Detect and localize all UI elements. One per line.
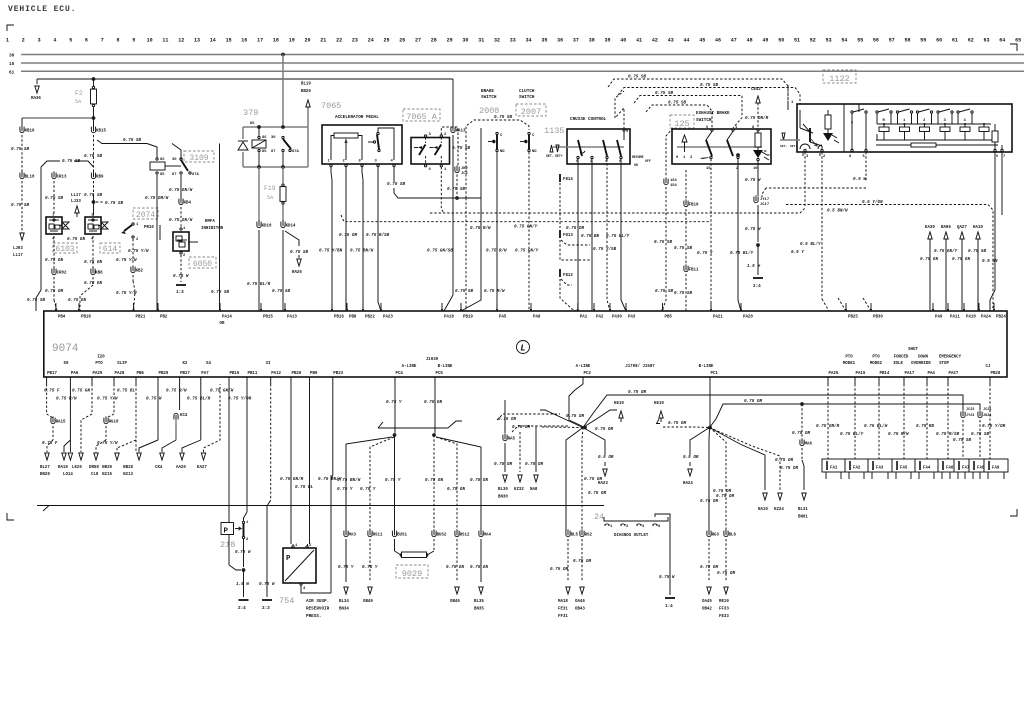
svg-text:2: 2 [626, 525, 629, 529]
svg-text:BL6: BL6 [729, 534, 737, 538]
svg-text:PA23: PA23 [383, 316, 393, 320]
svg-text:JY17: JY17 [760, 198, 770, 202]
svg-text:85: 85 [262, 150, 267, 154]
svg-text:22: 22 [336, 38, 342, 44]
svg-text:LJ03: LJ03 [13, 247, 23, 251]
svg-text:PA15: PA15 [856, 372, 866, 376]
svg-text:4: 4 [52, 238, 55, 242]
svg-text:56: 56 [873, 38, 879, 44]
svg-text:3109: 3109 [189, 154, 208, 163]
arrow NA10 [763, 493, 767, 500]
ground 1:3 [176, 284, 186, 286]
wire KA13 drop [452, 79, 454, 127]
svg-text:0.75 GN/W: 0.75 GN/W [210, 389, 234, 394]
svg-text:10: 10 [147, 38, 153, 44]
sensor 754 box [283, 548, 316, 583]
svg-text:44: 44 [683, 38, 689, 44]
svg-text:0.75 GN: 0.75 GN [447, 487, 465, 492]
svg-text:0.75 OR: 0.75 OR [780, 466, 798, 471]
svg-text:RA24: RA24 [683, 482, 693, 486]
wire PB27 column KC4 [179, 384, 181, 410]
label 125 [670, 115, 694, 128]
svg-text:KD14: KD14 [286, 225, 296, 229]
svg-text:1: 1 [246, 521, 249, 525]
svg-text:0.75 GN: 0.75 GN [470, 478, 488, 483]
wire F814 dashed down [559, 183, 561, 228]
svg-text:60: 60 [936, 38, 942, 44]
svg-text:2: 2 [923, 119, 926, 123]
svg-text:FF33: FF33 [719, 608, 729, 612]
svg-text:PRESS.: PRESS. [306, 614, 321, 619]
cruise SET arrows left [550, 145, 553, 152]
svg-text:NB28: NB28 [123, 466, 133, 470]
svg-text:0.75 Y/BN: 0.75 Y/BN [319, 249, 343, 254]
svg-text:0.5 OR: 0.5 OR [598, 455, 614, 460]
svg-text:PB6: PB6 [137, 372, 145, 376]
wire horizontal feed y79 [37, 78, 453, 80]
ruler column numbers 1-65 [6, 38, 1021, 44]
svg-text:0.75 OR: 0.75 OR [668, 421, 686, 426]
svg-text:CJ: CJ [986, 365, 991, 369]
wire branch to CR13 [41, 161, 60, 167]
connector RG3 [707, 531, 711, 537]
svg-text:AA20: AA20 [176, 466, 186, 470]
svg-text:1:3: 1:3 [176, 290, 184, 295]
wire RG3 down [708, 539, 710, 582]
svg-text:QA27: QA27 [957, 226, 967, 230]
svg-text:0.75 F: 0.75 F [42, 441, 58, 446]
svg-text:9029: 9029 [402, 569, 422, 579]
svg-text:F: F [851, 122, 854, 126]
svg-text:29: 29 [447, 38, 453, 44]
svg-text:KE10: KE10 [614, 402, 624, 406]
wire PA4 column [926, 384, 928, 459]
wire PA29 column [91, 384, 93, 414]
svg-text:RS11: RS11 [373, 534, 383, 538]
svg-text:F2: F2 [75, 90, 83, 97]
svg-text:7: 7 [101, 38, 104, 44]
svg-text:0.75 GN: 0.75 GN [920, 257, 938, 262]
wire stub PB30 [863, 298, 871, 311]
svg-text:JY23: JY23 [966, 414, 974, 418]
svg-text:51: 51 [794, 38, 800, 44]
svg-text:PA28: PA28 [115, 372, 125, 376]
exhaust internal rail [677, 146, 762, 148]
svg-text:1: 1 [136, 223, 139, 227]
label 7065 A [403, 109, 440, 121]
wire 0.75 SB web line3 [634, 96, 742, 129]
svg-text:FE31: FE31 [558, 608, 568, 612]
svg-text:FA9: FA9 [992, 467, 1000, 471]
wire 7065 pin4 down [393, 167, 395, 182]
svg-text:PA3: PA3 [628, 316, 636, 320]
svg-text:LE26: LE26 [72, 466, 82, 470]
svg-text:0.75 OR: 0.75 OR [525, 462, 543, 467]
connector KC4 [174, 413, 178, 419]
svg-text:STOP: STOP [939, 362, 949, 366]
wire stub PB25 [838, 298, 846, 311]
wire KD14 to ECU PA13 [282, 230, 284, 311]
svg-text:0.75 W: 0.75 W [659, 575, 675, 580]
pressure switch 218 contact [242, 521, 244, 523]
7065A switch 1 [424, 135, 426, 137]
svg-text:FE33: FE33 [719, 615, 729, 619]
KE10 arrow 2 [659, 411, 663, 418]
svg-text:PA14: PA14 [222, 316, 232, 320]
1122 left cell pins [800, 144, 805, 149]
1122 right pins [994, 149, 996, 151]
connector F812 [559, 269, 561, 277]
label 2007 [516, 104, 546, 116]
connector JC23 JY23 [961, 412, 965, 418]
svg-text:0.75 Y/W: 0.75 Y/W [97, 441, 118, 446]
svg-text:PB5: PB5 [665, 316, 673, 320]
wire 7065A jumper to JK2 [441, 127, 458, 165]
wire JC23 down [962, 420, 964, 459]
svg-text:0.75 GN: 0.75 GN [67, 237, 85, 242]
svg-text:BL27: BL27 [40, 466, 50, 470]
wire 1122 pin6 down [990, 152, 995, 311]
wire PA27 column [947, 384, 949, 459]
svg-text:F19: F19 [264, 185, 276, 192]
svg-text:PB4: PB4 [58, 316, 66, 320]
svg-text:PA24: PA24 [981, 316, 991, 320]
switch pack box 7065A [411, 138, 450, 165]
junction C PC4 [393, 433, 397, 437]
pressure switch 218 box [221, 523, 234, 535]
svg-text:0.75 Y/OR: 0.75 Y/OR [228, 397, 252, 402]
svg-text:PA21: PA21 [713, 316, 723, 320]
svg-text:0.75 OR: 0.75 OR [744, 399, 762, 404]
svg-text:0.75 Y/W: 0.75 Y/W [116, 291, 137, 296]
svg-text:0.75 SB: 0.75 SB [968, 249, 986, 254]
svg-text:3I: 3I [266, 362, 271, 366]
svg-text:39: 39 [604, 38, 610, 44]
connector RS12 [455, 531, 459, 537]
svg-text:0.75 GN: 0.75 GN [470, 565, 488, 570]
svg-text:EA30: EA30 [925, 226, 935, 230]
svg-text:21: 21 [320, 38, 326, 44]
svg-text:0.75 Y: 0.75 Y [338, 565, 354, 570]
connector BL6 [724, 531, 728, 537]
wire 0.75 OR to RA5 [497, 414, 560, 420]
svg-text:JK2: JK2 [461, 167, 469, 171]
1122 divider [843, 104, 845, 152]
svg-text:DIAGNOS OUTLET: DIAGNOS OUTLET [614, 534, 649, 538]
svg-text:F812: F812 [563, 274, 573, 278]
arrow BL31 [802, 493, 806, 500]
wire 3109 85 down [156, 175, 158, 311]
wire 7065A pin1 to BN/W line [441, 167, 444, 213]
svg-text:0.75 GN/SB: 0.75 GN/SB [427, 249, 453, 254]
wire 1122 pin8-5 down [865, 152, 867, 181]
svg-text:0.75 GN: 0.75 GN [84, 281, 102, 286]
wire F813 stub [561, 240, 590, 245]
svg-text:BL10: BL10 [25, 176, 35, 180]
1122 resistor rail top [877, 123, 991, 125]
svg-text:LL17: LL17 [13, 254, 23, 258]
connector MA4 [479, 531, 483, 537]
svg-text:27: 27 [415, 38, 421, 44]
svg-text:RA36: RA36 [31, 97, 41, 101]
svg-text:B-LINE: B-LINE [438, 365, 453, 369]
svg-text:1122: 1122 [829, 74, 849, 84]
wire 7065 pin1 to ECU [331, 167, 332, 311]
node A junction [583, 426, 587, 430]
svg-text:0.75 SB: 0.75 SB [655, 91, 673, 96]
wire x481 to PB19 [461, 198, 481, 311]
junction 7065A output [455, 196, 459, 200]
svg-text:BN01: BN01 [798, 516, 808, 520]
wire PC4 down to BUS1 [394, 435, 396, 531]
svg-text:RA15: RA15 [56, 421, 66, 425]
svg-text:CRUISE CONTROL: CRUISE CONTROL [570, 117, 607, 122]
svg-text:0.75 GN: 0.75 GN [84, 260, 102, 265]
svg-text:BL19: BL19 [301, 83, 311, 87]
svg-text:PB8: PB8 [349, 316, 357, 320]
svg-text:59: 59 [920, 38, 926, 44]
svg-text:KB2: KB2 [136, 270, 144, 274]
svg-text:PC1: PC1 [711, 372, 719, 376]
svg-text:0.75 GN: 0.75 GN [446, 565, 464, 570]
node B fan down RA24 [690, 428, 710, 456]
svg-text:OA46: OA46 [575, 600, 585, 604]
svg-text:LJ33: LJ33 [71, 200, 81, 204]
node A fan to left wall [540, 410, 583, 428]
wire KB15 down to split [93, 135, 95, 172]
svg-text:64: 64 [999, 38, 1005, 44]
svg-text:RESERVOIR: RESERVOIR [306, 607, 330, 612]
wire MA6 column [800, 402, 804, 406]
svg-text:F813: F813 [563, 234, 573, 238]
wire RA36 drop [36, 79, 38, 84]
svg-text:0.75 W: 0.75 W [146, 397, 162, 402]
arrow NB29 [94, 453, 98, 460]
wire KB15 drop [93, 118, 95, 127]
svg-text:OR: OR [220, 322, 225, 326]
svg-text:0.75 OR: 0.75 OR [700, 565, 718, 570]
svg-text:0.75 GN: 0.75 GN [68, 298, 86, 303]
svg-text:0.75 OR: 0.75 OR [717, 571, 735, 576]
svg-text:0.75 SB: 0.75 SB [11, 147, 29, 152]
connector MA3 [344, 531, 348, 537]
svg-text:0.75 GN/W: 0.75 GN/W [169, 188, 193, 193]
wire cruise pin2 to ECU PA2 [591, 159, 593, 311]
svg-text:0.75 R/SB: 0.75 R/SB [936, 432, 960, 437]
svg-text:614: 614 [103, 245, 118, 254]
wire JC24 down [979, 420, 981, 459]
svg-text:BN28: BN28 [40, 473, 50, 477]
svg-text:0.75 SB: 0.75 SB [211, 290, 229, 295]
svg-text:15: 15 [9, 62, 15, 67]
wire PA12 column ground [270, 384, 272, 500]
wire PC2 column [569, 384, 585, 428]
wire RS11 down [369, 539, 371, 582]
svg-text:SET-: SET- [780, 145, 787, 148]
wire 614 down [92, 236, 94, 268]
arrow at PB20 out [137, 453, 141, 460]
bus wire 15 [21, 62, 1024, 64]
svg-text:PA6: PA6 [71, 372, 79, 376]
svg-text:50: 50 [64, 362, 69, 366]
svg-text:PA27: PA27 [949, 372, 959, 376]
connector FB11 [684, 266, 688, 272]
svg-text:4: 4 [964, 119, 967, 123]
wire PB23 column to 754 pin4 [332, 384, 334, 475]
wire BL6 down [725, 539, 727, 582]
node B junction [708, 426, 712, 430]
svg-text:PB22: PB22 [365, 316, 375, 320]
svg-text:BL5: BL5 [571, 534, 579, 538]
label 614 [100, 243, 120, 253]
svg-text:FA4: FA4 [923, 467, 931, 471]
svg-text:1: 1 [183, 227, 186, 231]
svg-text:NB29: NB29 [102, 466, 112, 470]
svg-text:J1939: J1939 [426, 358, 439, 362]
svg-text:48: 48 [747, 38, 753, 44]
svg-text:0.75 R/W: 0.75 R/W [166, 389, 187, 394]
fuse cells [822, 459, 1008, 472]
1122 right cell switch F [851, 111, 853, 113]
arrow CK4 [160, 453, 164, 460]
connector BL10 [20, 173, 24, 179]
relay 3109 feed wire [97, 140, 147, 144]
diode in 379 [242, 127, 244, 139]
svg-text:B-LINE: B-LINE [699, 365, 714, 369]
svg-text:0.75 OR/R: 0.75 OR/R [816, 424, 840, 429]
svg-text:55: 55 [857, 38, 863, 44]
svg-text:1: 1 [328, 160, 331, 164]
svg-text:0.5 Y/GN: 0.5 Y/GN [862, 200, 883, 205]
wire KA13 to ECU PA18 [452, 135, 454, 295]
svg-text:PA26: PA26 [829, 372, 839, 376]
svg-text:PB9: PB9 [310, 372, 318, 376]
svg-text:PA8: PA8 [533, 316, 541, 320]
wire 7065 pin4 horizontal [394, 188, 481, 198]
svg-text:PA18: PA18 [444, 316, 454, 320]
svg-text:24: 24 [368, 38, 374, 44]
svg-text:0.75 Y/W: 0.75 Y/W [116, 258, 137, 263]
svg-text:MODE2: MODE2 [870, 362, 883, 366]
wire PB20 column [157, 384, 159, 440]
svg-text:0.75 SB: 0.75 SB [674, 291, 692, 296]
svg-text:8: 8 [849, 155, 852, 159]
arrow BL27 [45, 453, 49, 460]
svg-text:6103: 6103 [55, 245, 74, 254]
svg-text:30: 30 [172, 158, 177, 162]
switch in 7065 [377, 132, 379, 134]
wire BL19 BN20 riser [307, 107, 309, 127]
svg-text:MA18: MA18 [558, 600, 568, 604]
svg-text:2:3: 2:3 [262, 606, 270, 611]
exhaust pin 1 top [732, 129, 734, 131]
wire CR02 down [53, 277, 55, 300]
svg-text:SWITCH: SWITCH [519, 95, 535, 100]
svg-text:0.75 GN/Y: 0.75 GN/Y [934, 249, 958, 254]
relay 3109 coil [150, 162, 165, 170]
svg-text:2:4: 2:4 [238, 606, 246, 611]
svg-text:0.75 SB: 0.75 SB [494, 115, 512, 120]
svg-text:61: 61 [9, 70, 15, 75]
wire BL10 down [21, 181, 23, 228]
bus wire 30 [21, 54, 1024, 56]
svg-text:0.75 Y: 0.75 Y [360, 487, 376, 492]
svg-text:9: 9 [626, 130, 629, 134]
svg-text:RS12: RS12 [460, 534, 470, 538]
label 6050 [189, 257, 216, 268]
wire LJ33 junction [92, 200, 96, 204]
svg-text:0.75 SB: 0.75 SB [84, 154, 102, 159]
svg-text:0.75 GN: 0.75 GN [72, 389, 90, 394]
wire PB11 column to P switch [246, 384, 248, 512]
svg-text:BN20: BN20 [301, 90, 311, 94]
svg-text:3: 3 [642, 525, 645, 529]
svg-text:0.75 SB: 0.75 SB [447, 187, 465, 192]
wire KZ24 dashed [710, 428, 781, 491]
svg-text:EA27: EA27 [197, 466, 207, 470]
wire 0.75 SB brake feed [466, 120, 529, 198]
svg-text:4: 4 [91, 238, 94, 242]
svg-text:RMFA: RMFA [205, 220, 215, 224]
wire 0.75 OR loop A y395 [583, 395, 963, 428]
svg-text:FA6: FA6 [946, 467, 954, 471]
svg-text:BA06: BA06 [941, 226, 951, 230]
svg-text:L: L [520, 344, 525, 354]
valve module 6103 [46, 217, 62, 234]
svg-text:KB4: KB4 [184, 202, 192, 206]
svg-text:0.75 BL/R: 0.75 BL/R [187, 397, 211, 402]
svg-text:19: 19 [289, 38, 295, 44]
wire PC5 column upper [434, 384, 436, 433]
switch 2074 lever [132, 223, 134, 225]
svg-text:2: 2 [246, 538, 249, 542]
svg-text:JC24: JC24 [983, 408, 991, 412]
bus wire 61 [21, 70, 1024, 72]
svg-text:DOWN: DOWN [918, 356, 928, 360]
svg-text:PA20: PA20 [743, 316, 753, 320]
svg-text:0.75 GN: 0.75 GN [424, 400, 442, 405]
svg-text:32: 32 [494, 38, 500, 44]
wire 7065 pin3 to ECU [378, 167, 381, 311]
svg-text:C: C [532, 134, 535, 138]
379 bottom rail [243, 166, 308, 168]
svg-text:65: 65 [1015, 38, 1021, 44]
wire F2 to bar [93, 107, 95, 118]
ECU box 9074 [44, 311, 1007, 377]
wire F812 stub [561, 279, 572, 285]
wire EA27 column [204, 384, 221, 452]
accelerator pedal box 7065 [322, 125, 402, 164]
svg-text:30: 30 [9, 54, 15, 59]
svg-text:1: 1 [444, 168, 447, 172]
svg-text:K2: K2 [183, 362, 188, 366]
frame corner bottom-right [1010, 509, 1017, 516]
svg-text:0.5 W: 0.5 W [853, 177, 866, 182]
svg-text:PB2: PB2 [160, 316, 168, 320]
svg-text:54: 54 [841, 38, 847, 44]
connector JY17 JC17 [754, 197, 758, 203]
wire PB28 column [989, 384, 991, 459]
junction ground node [756, 243, 760, 247]
cruise pin 9 top [623, 129, 625, 131]
svg-text:0.75 BL/Y: 0.75 BL/Y [840, 432, 864, 437]
wire F19 to KD14 [282, 205, 284, 222]
svg-text:RG10: RG10 [109, 421, 119, 425]
svg-text:0.75 GN: 0.75 GN [45, 258, 63, 263]
svg-text:PTO: PTO [845, 356, 853, 360]
svg-text:0.75 GN: 0.75 GN [425, 478, 443, 483]
svg-text:0.75 OR: 0.75 OR [716, 494, 734, 499]
